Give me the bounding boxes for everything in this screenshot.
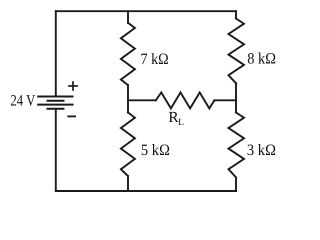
wire left lower (55, 109, 57, 191)
resistor R 7k (121, 23, 135, 85)
resistor R 5k (121, 113, 135, 177)
svg-text:24 V: 24 V (10, 93, 35, 110)
label battery plus (68, 81, 78, 91)
wire left upper (55, 11, 57, 96)
wire right mid (235, 83, 237, 112)
wire RL right (214, 99, 236, 101)
wire right branch top (235, 11, 237, 18)
resistor RL (156, 93, 215, 109)
label battery minus (67, 115, 76, 117)
svg-text:5 kΩ: 5 kΩ (141, 142, 170, 159)
resistor R 3k (229, 113, 245, 178)
svg-text:L: L (178, 117, 184, 128)
wire right branch bottom (235, 178, 237, 191)
resistor R 8k (229, 19, 245, 84)
svg-text:7 kΩ: 7 kΩ (141, 51, 169, 68)
wire middle branch top (127, 11, 129, 23)
wire top (56, 10, 236, 12)
wire middle mid (127, 85, 129, 112)
battery V1 24 V (38, 97, 72, 109)
wire bottom (56, 190, 236, 192)
svg-text:8 kΩ: 8 kΩ (247, 51, 276, 68)
svg-text:3 kΩ: 3 kΩ (247, 142, 276, 159)
wire RL left (128, 99, 156, 101)
wire middle branch bottom (127, 176, 129, 191)
